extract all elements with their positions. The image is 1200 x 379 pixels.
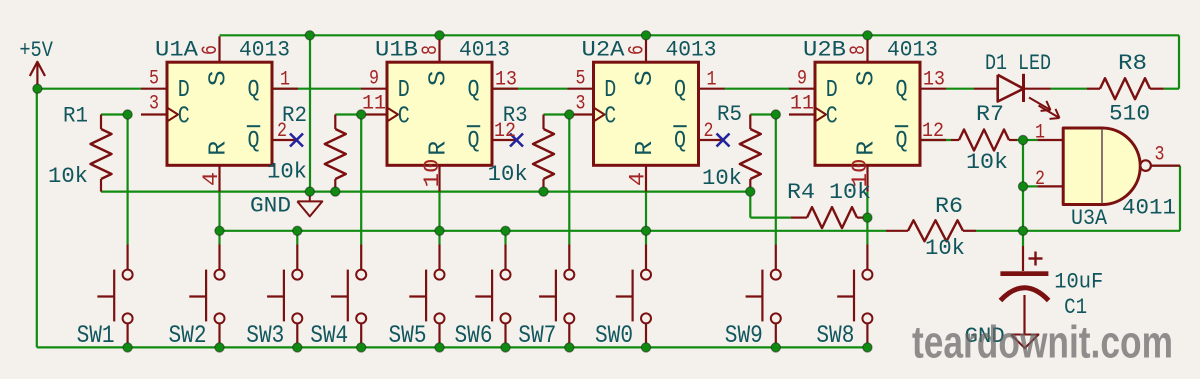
- svg-text:C: C: [604, 103, 616, 130]
- svg-text:S: S: [206, 70, 233, 86]
- svg-text:6: 6: [625, 45, 650, 55]
- svg-text:SW1: SW1: [77, 321, 115, 350]
- svg-text:SW5: SW5: [389, 321, 427, 350]
- svg-text:Q: Q: [896, 128, 908, 155]
- svg-text:10: 10: [420, 159, 445, 188]
- svg-text:R5: R5: [717, 102, 742, 127]
- svg-text:U1A: U1A: [155, 37, 199, 62]
- svg-text:C: C: [826, 103, 838, 130]
- svg-text:10k: 10k: [925, 236, 965, 261]
- svg-text:C: C: [178, 103, 190, 130]
- svg-text:Q: Q: [248, 128, 260, 155]
- svg-text:10uF: 10uF: [1054, 270, 1103, 295]
- svg-text:SW9: SW9: [725, 321, 763, 350]
- svg-text:R4 10k: R4 10k: [787, 180, 871, 205]
- svg-text:1: 1: [280, 68, 290, 91]
- svg-text:SW6: SW6: [455, 321, 493, 350]
- svg-text:13: 13: [495, 68, 517, 91]
- svg-text:R: R: [632, 141, 659, 156]
- svg-text:4011: 4011: [1122, 196, 1176, 221]
- svg-text:4013: 4013: [239, 37, 290, 62]
- svg-text:8: 8: [846, 45, 871, 55]
- svg-text:D: D: [398, 77, 410, 104]
- svg-text:SW7: SW7: [518, 321, 556, 350]
- svg-text:U3A: U3A: [1071, 206, 1108, 231]
- svg-text:6: 6: [198, 45, 223, 55]
- svg-text:4013: 4013: [887, 37, 938, 62]
- svg-text:U1B: U1B: [375, 37, 418, 62]
- svg-text:R1: R1: [63, 104, 88, 129]
- svg-text:1: 1: [707, 68, 717, 91]
- svg-text:11: 11: [790, 93, 814, 116]
- svg-text:4: 4: [199, 172, 224, 186]
- svg-text:R6: R6: [935, 194, 963, 219]
- svg-text:Q: Q: [248, 77, 260, 104]
- svg-text:8: 8: [418, 45, 443, 55]
- svg-text:D: D: [178, 77, 190, 104]
- svg-text:10k: 10k: [702, 166, 742, 191]
- svg-text:D: D: [826, 77, 838, 104]
- svg-text:U2A: U2A: [582, 37, 626, 62]
- svg-text:Q: Q: [674, 128, 686, 155]
- svg-text:4013: 4013: [459, 37, 510, 62]
- svg-text:5: 5: [149, 68, 159, 91]
- svg-text:R: R: [854, 141, 881, 156]
- svg-text:+5V: +5V: [19, 38, 53, 63]
- svg-text:R3: R3: [503, 103, 528, 128]
- svg-text:2: 2: [704, 120, 714, 143]
- svg-text:R: R: [206, 141, 233, 156]
- svg-text:SW3: SW3: [246, 321, 284, 350]
- svg-text:510: 510: [1109, 102, 1150, 127]
- svg-text:S: S: [632, 70, 659, 86]
- svg-text:11: 11: [362, 93, 386, 116]
- svg-text:10k: 10k: [267, 160, 307, 185]
- svg-text:C: C: [398, 103, 410, 130]
- svg-text:5: 5: [576, 68, 586, 91]
- svg-text:SW4: SW4: [310, 321, 348, 350]
- svg-text:SW8: SW8: [816, 321, 854, 350]
- svg-text:S: S: [426, 70, 453, 86]
- svg-text:3: 3: [149, 93, 159, 116]
- svg-text:13: 13: [923, 68, 945, 91]
- svg-text:SW2: SW2: [169, 321, 207, 350]
- svg-text:2: 2: [1035, 168, 1045, 191]
- svg-text:9: 9: [369, 68, 379, 91]
- svg-text:SW0: SW0: [595, 321, 633, 350]
- svg-text:Q: Q: [896, 77, 908, 104]
- svg-text:3: 3: [576, 93, 586, 116]
- svg-text:D: D: [604, 77, 616, 104]
- svg-text:R8: R8: [1118, 51, 1147, 76]
- svg-text:D1 LED: D1 LED: [985, 51, 1051, 76]
- svg-text:Q: Q: [674, 77, 686, 104]
- svg-text:10k: 10k: [488, 162, 528, 187]
- svg-text:9: 9: [797, 68, 807, 91]
- svg-text:Q: Q: [468, 77, 480, 104]
- svg-text:4: 4: [626, 172, 651, 186]
- svg-text:GND: GND: [250, 194, 291, 219]
- svg-text:1: 1: [1035, 122, 1045, 145]
- svg-text:R7: R7: [976, 102, 1004, 127]
- svg-text:12: 12: [922, 120, 944, 143]
- svg-text:10k: 10k: [966, 150, 1008, 175]
- svg-text:Q: Q: [468, 128, 480, 155]
- svg-text:3: 3: [1155, 144, 1165, 167]
- svg-text:S: S: [854, 70, 881, 86]
- svg-text:4013: 4013: [666, 37, 717, 62]
- svg-text:R: R: [426, 141, 453, 156]
- svg-text:R2: R2: [282, 103, 307, 128]
- svg-text:10k: 10k: [48, 164, 88, 189]
- svg-text:U2B: U2B: [803, 37, 846, 62]
- svg-text:teardownit.com: teardownit.com: [912, 317, 1173, 368]
